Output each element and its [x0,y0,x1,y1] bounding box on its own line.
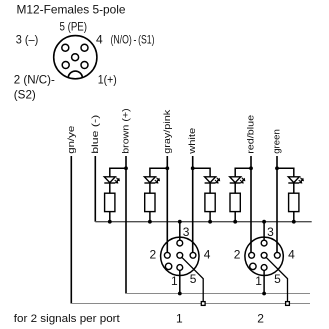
wire brown vertical [125,156,127,294]
wire D5 to R5 [293,183,295,193]
svg-text:4: 4 [288,248,295,262]
junction dot R4/bus [233,220,237,224]
svg-text:5: 5 [274,272,281,286]
svg-text:5 (PE): 5 (PE) [60,20,88,34]
junction dot J1 pin1/plus rail [178,292,182,296]
svg-text:1(+): 1(+) [98,73,117,87]
wire R2 to bus [149,212,151,222]
junction dot branch3/white [191,166,195,170]
junction dot J2 pin1/plus rail [262,292,266,296]
wire R4 to bus [234,212,236,222]
wire red/blue vertical [250,156,252,253]
J0 pin 4 (top-right) [81,44,88,51]
J1 pin1 wire to plus rail [179,270,181,293]
svg-text:2: 2 [150,248,157,262]
wire R5 to bus [293,212,295,222]
LED branch 3 wire [193,168,210,176]
LED branch 5 wire [277,168,294,176]
junction dot branch5/green [275,166,279,170]
svg-text:red/blue: red/blue [246,115,257,154]
LED D4 [230,177,245,183]
junction dot branch4/red-blue [249,166,253,170]
J1 pin 3 (top) [177,240,183,246]
svg-text:blue (-): blue (-) [90,115,101,154]
port 1 pin3 wire bus to connector [179,222,181,241]
svg-text:5: 5 [190,272,197,286]
J2 pin 2 (left) [249,252,255,258]
J1 pin 2 (left) [164,252,170,258]
svg-text:4: 4 [204,248,211,262]
connector J1 circle [161,237,199,275]
J2 pin5 PE terminal square [286,302,290,306]
J2 keying notch [250,263,256,269]
resistor R2 [145,193,155,211]
J1 pin 4 (right) [190,252,196,258]
J0 pin 2 (bottom-left) [62,62,69,69]
J0 pin 5 (center) [72,54,79,61]
svg-text:brown (+): brown (+) [121,108,132,154]
J2 pin 4 (right) [274,252,280,258]
J2 pin 1 (bottom) [261,265,267,271]
svg-text:M12-Females 5-pole: M12-Females 5-pole [17,3,126,17]
svg-text:gn/ye: gn/ye [66,126,77,154]
plus rail horizontal [126,293,310,295]
J2 pin 5 (center) [261,252,267,258]
junction dot pin3-2/bus [262,220,266,224]
LED D3 [205,177,220,183]
minus bus horizontal [95,221,311,223]
LED branch 2 wire [150,168,167,176]
svg-text:4: 4 [96,33,103,47]
resistor R1 [105,193,115,211]
wire R3 to bus [209,212,211,222]
wire white vertical [192,156,194,253]
J0 pin 1 (bottom-right) [81,62,88,69]
J1 pin5 wire diagonal to PE rail [181,257,203,302]
wire R1 to bus [109,212,111,222]
junction dot branch2/gray-pink [165,166,169,170]
J1 pin5 PE terminal square [201,302,205,306]
svg-text:1: 1 [255,274,262,288]
svg-text:2 (N/C)-: 2 (N/C)- [14,73,55,87]
resistor R3 [205,193,215,211]
wire gn/ye vertical [70,156,72,304]
svg-text:white: white [187,128,198,155]
wire green vertical [276,156,278,253]
resistor R4 [230,193,240,211]
LED D1 [104,177,119,183]
wire D4 to R4 [234,183,236,193]
J1 keying notch [165,263,171,269]
wire gray/pink vertical [166,156,168,253]
LED D5 [288,177,303,183]
wire D1 to R1 [109,183,111,193]
junction dot R5/bus [292,220,296,224]
LED D2 [144,177,159,183]
svg-text:(S2): (S2) [14,88,36,102]
PE rail horizontal [71,303,310,305]
connector J0 pinout circle [54,36,97,79]
J0 pin 3 (top-left) [62,44,69,51]
J1 pin 1 (bottom) [177,265,183,271]
J2 pin 3 (top) [261,240,267,246]
svg-text:2: 2 [234,248,241,262]
wire blue vertical [94,156,96,222]
svg-text:2: 2 [257,312,264,326]
svg-text:for 2 signals per port: for 2 signals per port [14,313,120,325]
junction dot pin3-1/bus [178,220,182,224]
svg-text:1: 1 [176,312,183,326]
wire D2 to R2 [149,183,151,193]
J0 keying notch [68,71,82,77]
J2 pin5 wire diagonal to PE rail [266,257,288,302]
J2 pin1 wire to plus rail [263,270,265,293]
junction dot R3/bus [208,220,212,224]
J1 pin 5 (center) [177,252,183,258]
svg-text:green: green [272,129,283,154]
junction dot R2/bus [148,220,152,224]
junction dot R1/bus [108,220,112,224]
connector J2 circle [245,237,283,275]
svg-text:gray/pink: gray/pink [162,110,173,154]
junction dot branch1/brown [124,166,128,170]
svg-text:1: 1 [171,274,178,288]
svg-text:(N/O) - (S1): (N/O) - (S1) [111,33,155,47]
port 2 pin3 wire bus to connector [263,222,265,241]
svg-text:3 (–): 3 (–) [16,33,39,47]
LED branch 4 wire [235,168,251,176]
LED branch 1 wire [110,168,126,176]
resistor R5 [289,193,299,211]
wire D3 to R3 [209,183,211,193]
